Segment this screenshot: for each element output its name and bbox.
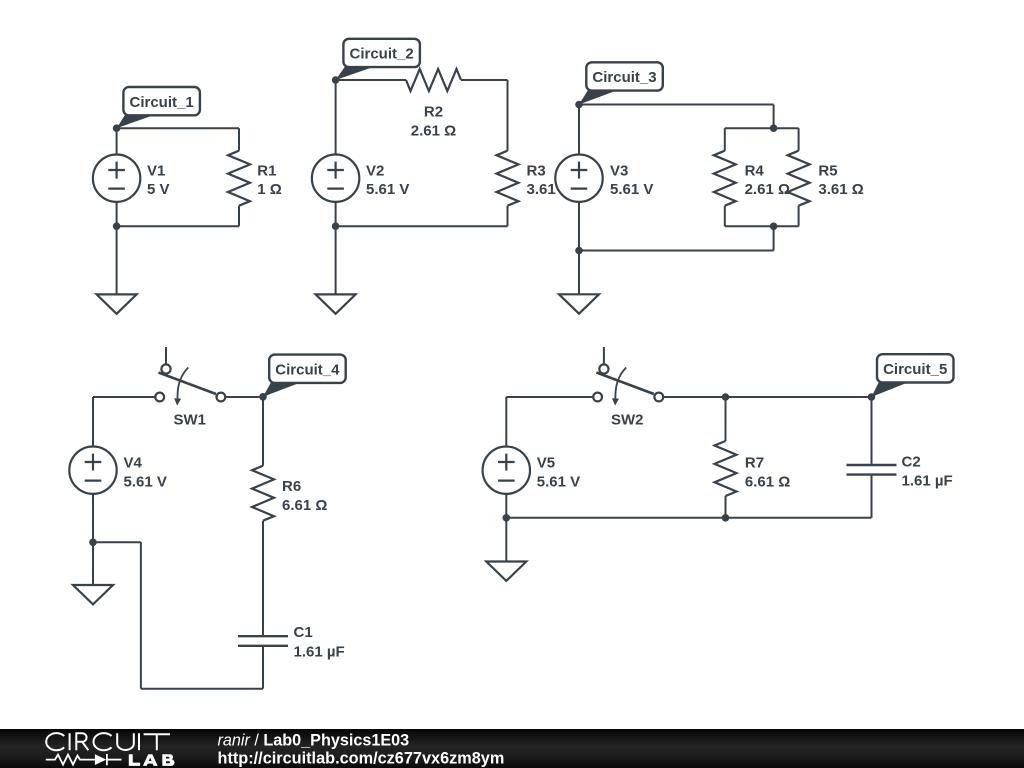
wire R6 top lead xyxy=(262,397,264,466)
svg-text:1.61 µF: 1.61 µF xyxy=(902,473,953,490)
wire R6-C1 xyxy=(262,521,264,637)
ground GND5 xyxy=(486,562,526,581)
wire to ground 4 xyxy=(92,542,94,585)
CircuitLab logo wordmark CIRCUIT (drawn letters) xyxy=(46,733,170,750)
wire top rail right circuit 2 xyxy=(461,79,508,81)
svg-text:V3: V3 xyxy=(610,162,628,179)
junction V1- / ground net xyxy=(113,222,121,230)
node label Circuit_5 xyxy=(872,354,954,397)
resistor R3 xyxy=(497,151,519,206)
svg-text:5.61 V: 5.61 V xyxy=(610,181,653,198)
wire to ground 1 xyxy=(116,226,118,294)
voltage source V5 xyxy=(483,447,530,494)
wire V3 top lead xyxy=(578,105,580,156)
svg-text:5.61 V: 5.61 V xyxy=(124,474,167,491)
voltage source V2 xyxy=(312,155,359,202)
svg-text:SW2: SW2 xyxy=(611,411,644,428)
wire C1 bottom lead xyxy=(262,646,264,689)
ground GND3 xyxy=(559,294,599,313)
junction V2- / ground net xyxy=(332,222,340,230)
svg-text:ranir / Lab0_Physics1E03: ranir / Lab0_Physics1E03 xyxy=(218,731,410,749)
junction parallel bottom xyxy=(770,223,778,231)
wire to ground 2 xyxy=(335,226,337,294)
wire V2 top lead xyxy=(335,80,337,155)
resistor R4 xyxy=(714,151,736,206)
wire R4 top lead xyxy=(724,128,726,151)
svg-text:1 Ω: 1 Ω xyxy=(257,181,282,198)
wire R1 bottom lead xyxy=(238,206,240,227)
wire C2 top lead xyxy=(871,397,873,465)
svg-text:Circuit_5: Circuit_5 xyxy=(883,361,947,378)
resistor R6 xyxy=(252,466,274,521)
node label Circuit_2 xyxy=(336,39,420,80)
svg-text:5.61 V: 5.61 V xyxy=(366,181,409,198)
junction V5- / ground net xyxy=(503,514,511,522)
wire SW2 to R7 node xyxy=(663,396,725,398)
svg-text:R1: R1 xyxy=(257,162,276,179)
wire R3 bottom lead xyxy=(507,206,509,227)
svg-text:6.61 Ω: 6.61 Ω xyxy=(745,474,790,491)
svg-text:V1: V1 xyxy=(147,162,165,179)
node label Circuit_4 xyxy=(263,355,346,397)
wire V1 bottom lead xyxy=(116,202,118,227)
resistor R1 xyxy=(228,151,250,206)
wire bottom net across xyxy=(141,688,263,690)
wire bottom net down xyxy=(140,542,142,688)
resistor R7 xyxy=(715,441,737,496)
wire bottom rail circuit 2 xyxy=(336,225,508,227)
wire parallel bottom rail xyxy=(725,225,799,227)
resistor R5 xyxy=(788,151,810,206)
svg-text:SW1: SW1 xyxy=(174,411,207,428)
node Circuit_1 top rail xyxy=(117,127,239,129)
ground GND2 xyxy=(316,294,356,313)
junction V4- / ground net xyxy=(89,539,97,547)
wire V4 bottom lead xyxy=(92,494,94,543)
svg-text:3.61 Ω: 3.61 Ω xyxy=(818,181,863,198)
svg-text:R3: R3 xyxy=(527,162,546,179)
node Circuit_4 junction xyxy=(259,393,267,401)
voltage source V4 xyxy=(69,447,116,494)
wire R7 node to C2 node xyxy=(726,396,872,398)
switch SW1 xyxy=(155,347,225,406)
svg-text:2.61 Ω: 2.61 Ω xyxy=(411,122,456,139)
wire down from parallel pair xyxy=(773,226,775,250)
wire SW1 to node xyxy=(225,396,263,398)
ground GND1 xyxy=(97,294,137,313)
junction parallel top xyxy=(770,124,778,132)
wire V5 top lead xyxy=(505,397,507,447)
ground GND4 xyxy=(73,585,113,604)
node Circuit_2 top rail left xyxy=(336,79,406,81)
wire R3 top lead xyxy=(507,80,509,151)
junction R7 top xyxy=(722,393,730,401)
svg-text:http://circuitlab.com/cz677vx6: http://circuitlab.com/cz677vx6zm8ym xyxy=(218,750,505,768)
node Circuit_5 junction xyxy=(868,393,876,401)
svg-text:R4: R4 xyxy=(745,162,765,179)
junction R7 bottom xyxy=(722,514,730,522)
svg-text:5.61 V: 5.61 V xyxy=(537,474,580,491)
wire V2 bottom lead xyxy=(335,202,337,227)
node Circuit_3 top rail xyxy=(579,104,774,106)
wire bottom rail circuit 3 xyxy=(579,250,774,252)
svg-text:Circuit_4: Circuit_4 xyxy=(275,361,340,378)
svg-text:R7: R7 xyxy=(745,454,764,471)
wire bottom rail circuit 1 xyxy=(117,225,239,227)
svg-text:5 V: 5 V xyxy=(147,181,170,198)
svg-text:V4: V4 xyxy=(124,454,143,471)
wire R4 bottom lead xyxy=(724,206,726,227)
capacitor C1 xyxy=(238,636,288,646)
resistor R2 xyxy=(406,69,461,91)
svg-text:6.61 Ω: 6.61 Ω xyxy=(282,497,327,514)
svg-text:R2: R2 xyxy=(424,104,443,121)
svg-text:2.61 Ω: 2.61 Ω xyxy=(745,181,790,198)
svg-text:1.61 µF: 1.61 µF xyxy=(294,644,345,661)
junction V3- / ground net xyxy=(575,247,583,255)
wire to ground 3 xyxy=(578,251,580,295)
wire parallel top rail xyxy=(725,127,799,129)
wire V1 top lead xyxy=(116,128,118,155)
node label Circuit_3 xyxy=(579,62,663,104)
logo wordmark LAB (drawn letters) xyxy=(129,754,175,766)
svg-text:C1: C1 xyxy=(294,624,313,641)
wire bottom net right xyxy=(93,541,141,543)
svg-text:Circuit_1: Circuit_1 xyxy=(129,94,193,111)
voltage source V3 xyxy=(555,155,602,202)
switch SW2 xyxy=(593,347,663,406)
wire R7 bottom lead xyxy=(725,496,727,518)
wire V5+ to SW2 left terminal xyxy=(506,396,593,398)
wire R5 bottom lead xyxy=(798,206,800,227)
wire R1 top lead xyxy=(238,128,240,151)
node Circuit_3 junction xyxy=(575,101,583,109)
wire V5 bottom lead xyxy=(505,494,507,518)
svg-text:Circuit_2: Circuit_2 xyxy=(349,46,413,63)
svg-text:V2: V2 xyxy=(366,162,384,179)
svg-text:R5: R5 xyxy=(818,162,837,179)
svg-text:R6: R6 xyxy=(282,478,301,495)
wire V3 bottom lead xyxy=(578,202,580,251)
wire C2 bottom lead xyxy=(871,475,873,518)
voltage source V1 xyxy=(93,155,140,202)
wire down to parallel pair top xyxy=(773,105,775,129)
wire V4+ to SW1 left terminal xyxy=(93,396,155,398)
wire V4 top lead xyxy=(92,397,94,447)
wire R7 top lead xyxy=(725,397,727,441)
wire R5 top lead xyxy=(798,128,800,151)
node Circuit_2 junction xyxy=(332,76,340,84)
wire bottom rail circuit 5 xyxy=(506,517,871,519)
node label Circuit_1 xyxy=(117,87,200,128)
svg-text:Circuit_3: Circuit_3 xyxy=(592,69,656,86)
node Circuit_1 junction xyxy=(113,124,121,132)
wire to ground 5 xyxy=(505,518,507,562)
svg-text:V5: V5 xyxy=(537,454,555,471)
svg-text:C2: C2 xyxy=(902,454,921,471)
logo resistor zigzag and diode xyxy=(46,754,122,765)
capacitor C2 xyxy=(847,465,897,475)
